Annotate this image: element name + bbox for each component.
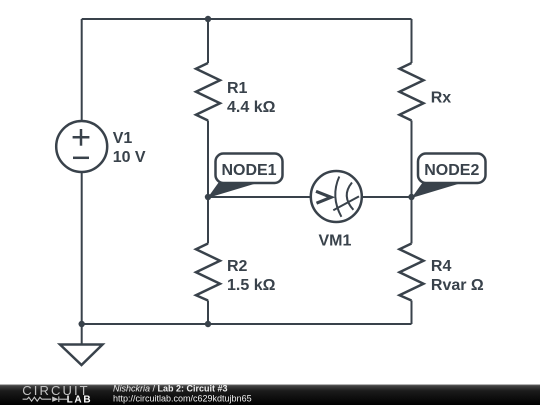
- svg-text:1.5 kΩ: 1.5 kΩ: [227, 277, 276, 294]
- svg-text:Rvar Ω: Rvar Ω: [431, 277, 484, 294]
- svg-text:R2: R2: [227, 258, 248, 275]
- svg-text:Nishckria / Lab 2: Circuit #3: Nishckria / Lab 2: Circuit #3: [113, 384, 228, 394]
- svg-text:10 V: 10 V: [113, 149, 146, 166]
- svg-text:R4: R4: [431, 258, 452, 275]
- svg-text:http://circuitlab.com/c629kdtu: http://circuitlab.com/c629kdtujbn65: [113, 394, 252, 404]
- svg-text:R1: R1: [227, 80, 248, 97]
- svg-text:NODE1: NODE1: [221, 162, 276, 179]
- svg-text:Rx: Rx: [431, 90, 452, 107]
- svg-text:NODE2: NODE2: [424, 162, 479, 179]
- svg-text:4.4 kΩ: 4.4 kΩ: [227, 99, 276, 116]
- svg-text:LAB: LAB: [67, 395, 93, 405]
- svg-text:V1: V1: [113, 130, 133, 147]
- svg-text:VM1: VM1: [319, 233, 352, 250]
